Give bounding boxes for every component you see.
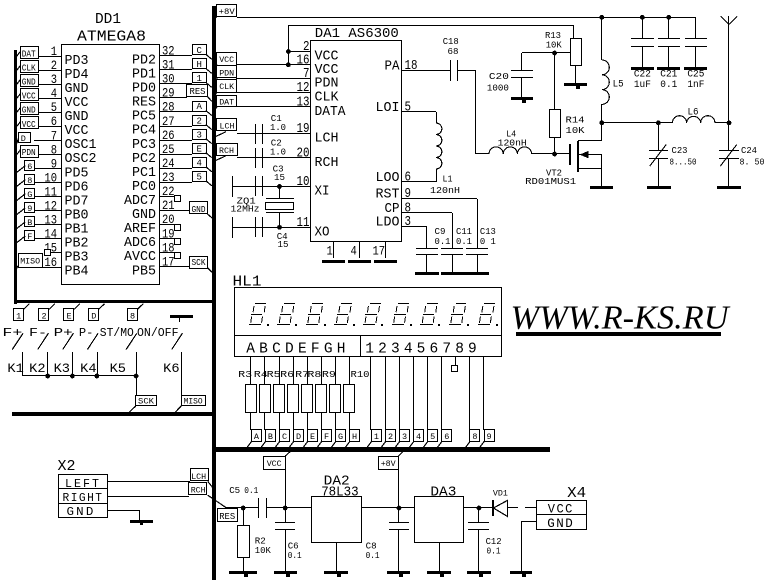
svg-text:XI: XI: [315, 185, 330, 200]
svg-text:RCH: RCH: [315, 156, 339, 171]
svg-text:PC5: PC5: [132, 110, 156, 125]
svg-text:19: 19: [297, 121, 310, 137]
svg-text:LCH: LCH: [191, 472, 206, 482]
svg-text:D: D: [285, 341, 294, 357]
svg-text:C22: C22: [634, 69, 651, 80]
svg-text:SCK: SCK: [138, 397, 155, 407]
svg-text:8: 8: [51, 142, 57, 157]
svg-text:G: G: [324, 341, 333, 357]
svg-text:4: 4: [404, 341, 413, 357]
svg-text:8. 50: 8. 50: [740, 156, 765, 167]
svg-text:E: E: [310, 432, 315, 442]
svg-text:PD3: PD3: [65, 54, 89, 69]
svg-text:DAT: DAT: [219, 98, 234, 108]
svg-text:VCC: VCC: [267, 459, 282, 469]
svg-text:13: 13: [44, 213, 57, 228]
svg-text:19: 19: [162, 226, 175, 241]
svg-text:L6: L6: [688, 107, 699, 119]
svg-text:DA1 AS6300: DA1 AS6300: [315, 26, 399, 42]
svg-text:K3: K3: [54, 361, 70, 376]
svg-text:H: H: [337, 341, 346, 357]
svg-text:9: 9: [468, 341, 477, 357]
svg-text:18: 18: [405, 58, 418, 74]
svg-text:DA3: DA3: [430, 485, 456, 501]
svg-text:PC0: PC0: [132, 180, 156, 195]
svg-text:DATA: DATA: [315, 105, 347, 120]
svg-text:PC2: PC2: [132, 152, 156, 167]
svg-text:F: F: [324, 432, 329, 442]
svg-text:PD7: PD7: [65, 194, 89, 209]
svg-text:7: 7: [442, 341, 451, 357]
svg-text:PC4: PC4: [132, 124, 156, 139]
svg-text:8: 8: [455, 341, 464, 357]
svg-text:R3: R3: [238, 369, 252, 380]
svg-text:A: A: [196, 102, 202, 112]
svg-text:120nH: 120nH: [430, 185, 460, 196]
svg-text:8: 8: [27, 176, 32, 186]
svg-text:C25: C25: [687, 69, 704, 80]
svg-text:4: 4: [416, 432, 421, 442]
svg-text:VCC: VCC: [219, 55, 234, 65]
svg-text:0.1: 0.1: [244, 485, 258, 496]
svg-text:F: F: [311, 341, 320, 357]
svg-text:VD1: VD1: [493, 489, 508, 499]
svg-text:D: D: [296, 432, 301, 442]
svg-text:R10: R10: [351, 369, 370, 380]
svg-text:PB3: PB3: [65, 251, 89, 266]
svg-text:PB5: PB5: [132, 264, 156, 279]
svg-text:3: 3: [405, 214, 412, 230]
svg-text:GND: GND: [67, 506, 96, 519]
svg-text:X2: X2: [58, 458, 76, 475]
svg-text:G: G: [338, 432, 343, 442]
svg-text:1: 1: [365, 341, 374, 357]
svg-text:7: 7: [51, 128, 57, 143]
svg-text:P-: P-: [79, 326, 94, 340]
svg-text:20: 20: [297, 146, 310, 162]
svg-text:C: C: [196, 46, 202, 56]
svg-text:F: F: [27, 232, 32, 242]
svg-text:GND: GND: [192, 205, 206, 215]
svg-text:PC3: PC3: [132, 138, 156, 153]
svg-text:H: H: [196, 60, 201, 70]
svg-text:K2: K2: [29, 361, 45, 376]
svg-text:PB4: PB4: [65, 265, 89, 280]
svg-text:0.1: 0.1: [660, 79, 677, 90]
svg-text:R14: R14: [566, 115, 585, 126]
svg-text:D: D: [91, 311, 96, 321]
svg-text:4: 4: [196, 159, 201, 169]
svg-text:PDN: PDN: [22, 148, 36, 158]
svg-text:28: 28: [162, 100, 175, 115]
svg-text:B: B: [27, 218, 32, 228]
svg-text:K4: K4: [80, 361, 97, 376]
svg-text:A: A: [246, 341, 255, 357]
svg-text:R6: R6: [280, 369, 294, 380]
svg-text:LDO: LDO: [376, 216, 400, 231]
svg-text:PD4: PD4: [65, 68, 89, 83]
svg-text:B: B: [268, 432, 273, 442]
svg-text:6: 6: [27, 162, 32, 172]
svg-text:E: E: [67, 311, 72, 321]
svg-text:VCC: VCC: [65, 96, 89, 111]
svg-text:11: 11: [44, 185, 57, 200]
svg-text:12MHz: 12MHz: [231, 204, 260, 215]
svg-text:MISO: MISO: [184, 397, 203, 407]
svg-text:XO: XO: [315, 225, 330, 240]
svg-text:E: E: [298, 341, 307, 357]
svg-text:C21: C21: [660, 69, 677, 80]
svg-text:68: 68: [448, 46, 459, 57]
svg-text:+8V: +8V: [219, 7, 236, 17]
svg-text:3: 3: [196, 130, 201, 140]
svg-text:PC1: PC1: [132, 166, 156, 181]
svg-text:L5: L5: [613, 79, 624, 91]
svg-text:AVCC: AVCC: [124, 250, 156, 265]
svg-text:8: 8: [130, 311, 135, 321]
svg-text:0.1: 0.1: [366, 550, 380, 561]
svg-text:5: 5: [196, 173, 201, 183]
svg-text:2: 2: [42, 311, 47, 321]
svg-text:DD1: DD1: [95, 11, 121, 28]
svg-text:10K: 10K: [566, 125, 585, 136]
svg-text:OSC1: OSC1: [65, 138, 97, 153]
svg-text:C5: C5: [229, 485, 240, 496]
svg-text:1.0: 1.0: [270, 122, 286, 133]
svg-text:10K: 10K: [255, 545, 271, 556]
svg-text:3: 3: [391, 341, 400, 357]
svg-text:CLK: CLK: [315, 90, 340, 105]
svg-text:H: H: [352, 432, 357, 442]
svg-text:15: 15: [278, 239, 289, 250]
svg-text:DAT: DAT: [22, 50, 37, 60]
svg-text:+8V: +8V: [381, 459, 397, 469]
svg-text:17: 17: [373, 244, 386, 259]
svg-text:10: 10: [44, 170, 57, 185]
svg-text:5: 5: [430, 432, 435, 442]
svg-text:10K: 10K: [546, 40, 562, 51]
svg-text:LCH: LCH: [220, 122, 235, 132]
svg-text:GND: GND: [22, 106, 36, 116]
svg-text:PDN: PDN: [219, 68, 234, 78]
svg-text:K1: K1: [7, 361, 24, 376]
svg-text:ADC7: ADC7: [124, 194, 156, 209]
svg-text:1: 1: [196, 74, 201, 84]
svg-text:GND: GND: [132, 208, 156, 223]
svg-text:C24: C24: [741, 145, 757, 156]
svg-text:0.1: 0.1: [435, 236, 451, 247]
svg-text:SCK: SCK: [192, 258, 207, 268]
svg-text:VCC: VCC: [548, 502, 574, 516]
svg-text:RD01MUS1: RD01MUS1: [525, 176, 576, 187]
svg-text:PB1: PB1: [65, 223, 89, 238]
svg-text:6: 6: [430, 341, 439, 357]
svg-text:WWW.R-KS.RU: WWW.R-KS.RU: [511, 300, 731, 337]
svg-text:VCC: VCC: [22, 120, 37, 130]
svg-text:0.1: 0.1: [288, 550, 302, 561]
svg-text:6: 6: [405, 170, 412, 186]
svg-text:C20: C20: [489, 71, 509, 82]
svg-text:GND: GND: [547, 517, 574, 531]
svg-text:ON/OFF: ON/OFF: [137, 326, 179, 340]
svg-text:0.1: 0.1: [487, 546, 501, 557]
svg-text:PD5: PD5: [65, 166, 89, 181]
svg-text:5: 5: [405, 100, 412, 116]
svg-text:LEFT: LEFT: [65, 478, 101, 491]
svg-text:78L33: 78L33: [321, 485, 359, 501]
svg-text:ATMEGA8: ATMEGA8: [77, 29, 146, 46]
svg-text:11: 11: [297, 215, 310, 231]
svg-text:PA: PA: [385, 59, 401, 74]
svg-text:PD2: PD2: [132, 53, 156, 68]
svg-text:120nH: 120nH: [498, 137, 527, 148]
svg-text:6: 6: [444, 432, 449, 442]
svg-text:RIGHT: RIGHT: [63, 492, 104, 505]
svg-text:K5: K5: [110, 361, 126, 376]
svg-text:14: 14: [44, 227, 57, 242]
svg-text:LCH: LCH: [315, 132, 339, 147]
svg-text:1.0: 1.0: [270, 146, 286, 157]
svg-text:GND: GND: [22, 78, 36, 88]
svg-text:PD1: PD1: [132, 68, 156, 83]
svg-text:LOI: LOI: [376, 101, 400, 116]
svg-text:VCC: VCC: [22, 92, 37, 102]
svg-text:CLK: CLK: [22, 64, 37, 74]
svg-text:G: G: [27, 190, 32, 200]
svg-text:A: A: [254, 432, 260, 442]
svg-text:R8: R8: [307, 369, 321, 380]
svg-text:ST/MO: ST/MO: [100, 326, 134, 340]
svg-text:0.1: 0.1: [456, 236, 472, 247]
svg-text:15: 15: [274, 172, 285, 183]
svg-text:E: E: [196, 144, 201, 154]
svg-text:PD6: PD6: [65, 180, 89, 195]
svg-text:RES: RES: [132, 96, 156, 111]
svg-text:32: 32: [162, 44, 175, 59]
svg-text:3: 3: [402, 432, 407, 442]
svg-text:RST: RST: [376, 188, 400, 203]
svg-text:30: 30: [162, 72, 175, 87]
svg-text:18: 18: [162, 240, 175, 255]
svg-text:LOO: LOO: [376, 171, 400, 186]
svg-text:AREF: AREF: [124, 222, 156, 237]
svg-text:9: 9: [51, 156, 57, 171]
svg-text:R5: R5: [267, 369, 281, 380]
svg-text:9: 9: [27, 204, 32, 214]
svg-text:10: 10: [297, 174, 310, 190]
svg-text:17: 17: [162, 254, 175, 269]
svg-text:B: B: [259, 341, 268, 357]
svg-text:C: C: [282, 432, 287, 442]
svg-text:PD0: PD0: [132, 82, 156, 97]
svg-text:1: 1: [327, 244, 333, 259]
svg-text:1: 1: [16, 311, 21, 321]
svg-text:2: 2: [196, 116, 201, 126]
svg-text:ADC6: ADC6: [124, 236, 156, 251]
svg-text:PDN: PDN: [315, 76, 339, 91]
svg-text:8...50: 8...50: [670, 156, 697, 167]
svg-text:VCC: VCC: [65, 124, 89, 139]
svg-text:GND: GND: [65, 110, 89, 125]
svg-text:31: 31: [162, 58, 175, 73]
svg-text:OSC2: OSC2: [65, 152, 97, 167]
svg-text:MISO: MISO: [20, 257, 40, 267]
svg-text:2: 2: [388, 432, 393, 442]
svg-text:P+: P+: [54, 326, 73, 340]
svg-text:K6: K6: [163, 361, 179, 376]
svg-text:GND: GND: [65, 82, 89, 97]
svg-text:5: 5: [417, 341, 426, 357]
svg-text:C23: C23: [672, 145, 688, 156]
svg-text:12: 12: [44, 199, 57, 214]
svg-text:RES: RES: [190, 87, 206, 97]
svg-text:0 1: 0 1: [480, 236, 496, 247]
svg-text:1: 1: [374, 432, 379, 442]
svg-text:RCH: RCH: [219, 146, 234, 156]
svg-text:X4: X4: [567, 485, 586, 502]
svg-text:PB0: PB0: [65, 209, 89, 224]
svg-text:RCH: RCH: [191, 486, 206, 496]
svg-text:1000: 1000: [487, 83, 509, 94]
svg-text:D: D: [21, 134, 26, 144]
svg-text:4: 4: [351, 244, 357, 259]
svg-text:13: 13: [297, 94, 310, 110]
svg-text:PB2: PB2: [65, 237, 89, 252]
svg-text:1uF: 1uF: [634, 79, 651, 90]
svg-text:C: C: [272, 341, 281, 357]
svg-text:29: 29: [162, 86, 175, 101]
svg-text:F-: F-: [29, 326, 47, 340]
svg-text:8: 8: [472, 432, 477, 442]
svg-text:RES: RES: [219, 512, 235, 522]
svg-text:9: 9: [486, 432, 491, 442]
svg-text:2: 2: [378, 341, 387, 357]
svg-text:CLK: CLK: [219, 82, 235, 92]
svg-text:1nF: 1nF: [687, 79, 704, 90]
svg-text:R9: R9: [322, 369, 336, 380]
svg-text:L1: L1: [443, 174, 453, 185]
